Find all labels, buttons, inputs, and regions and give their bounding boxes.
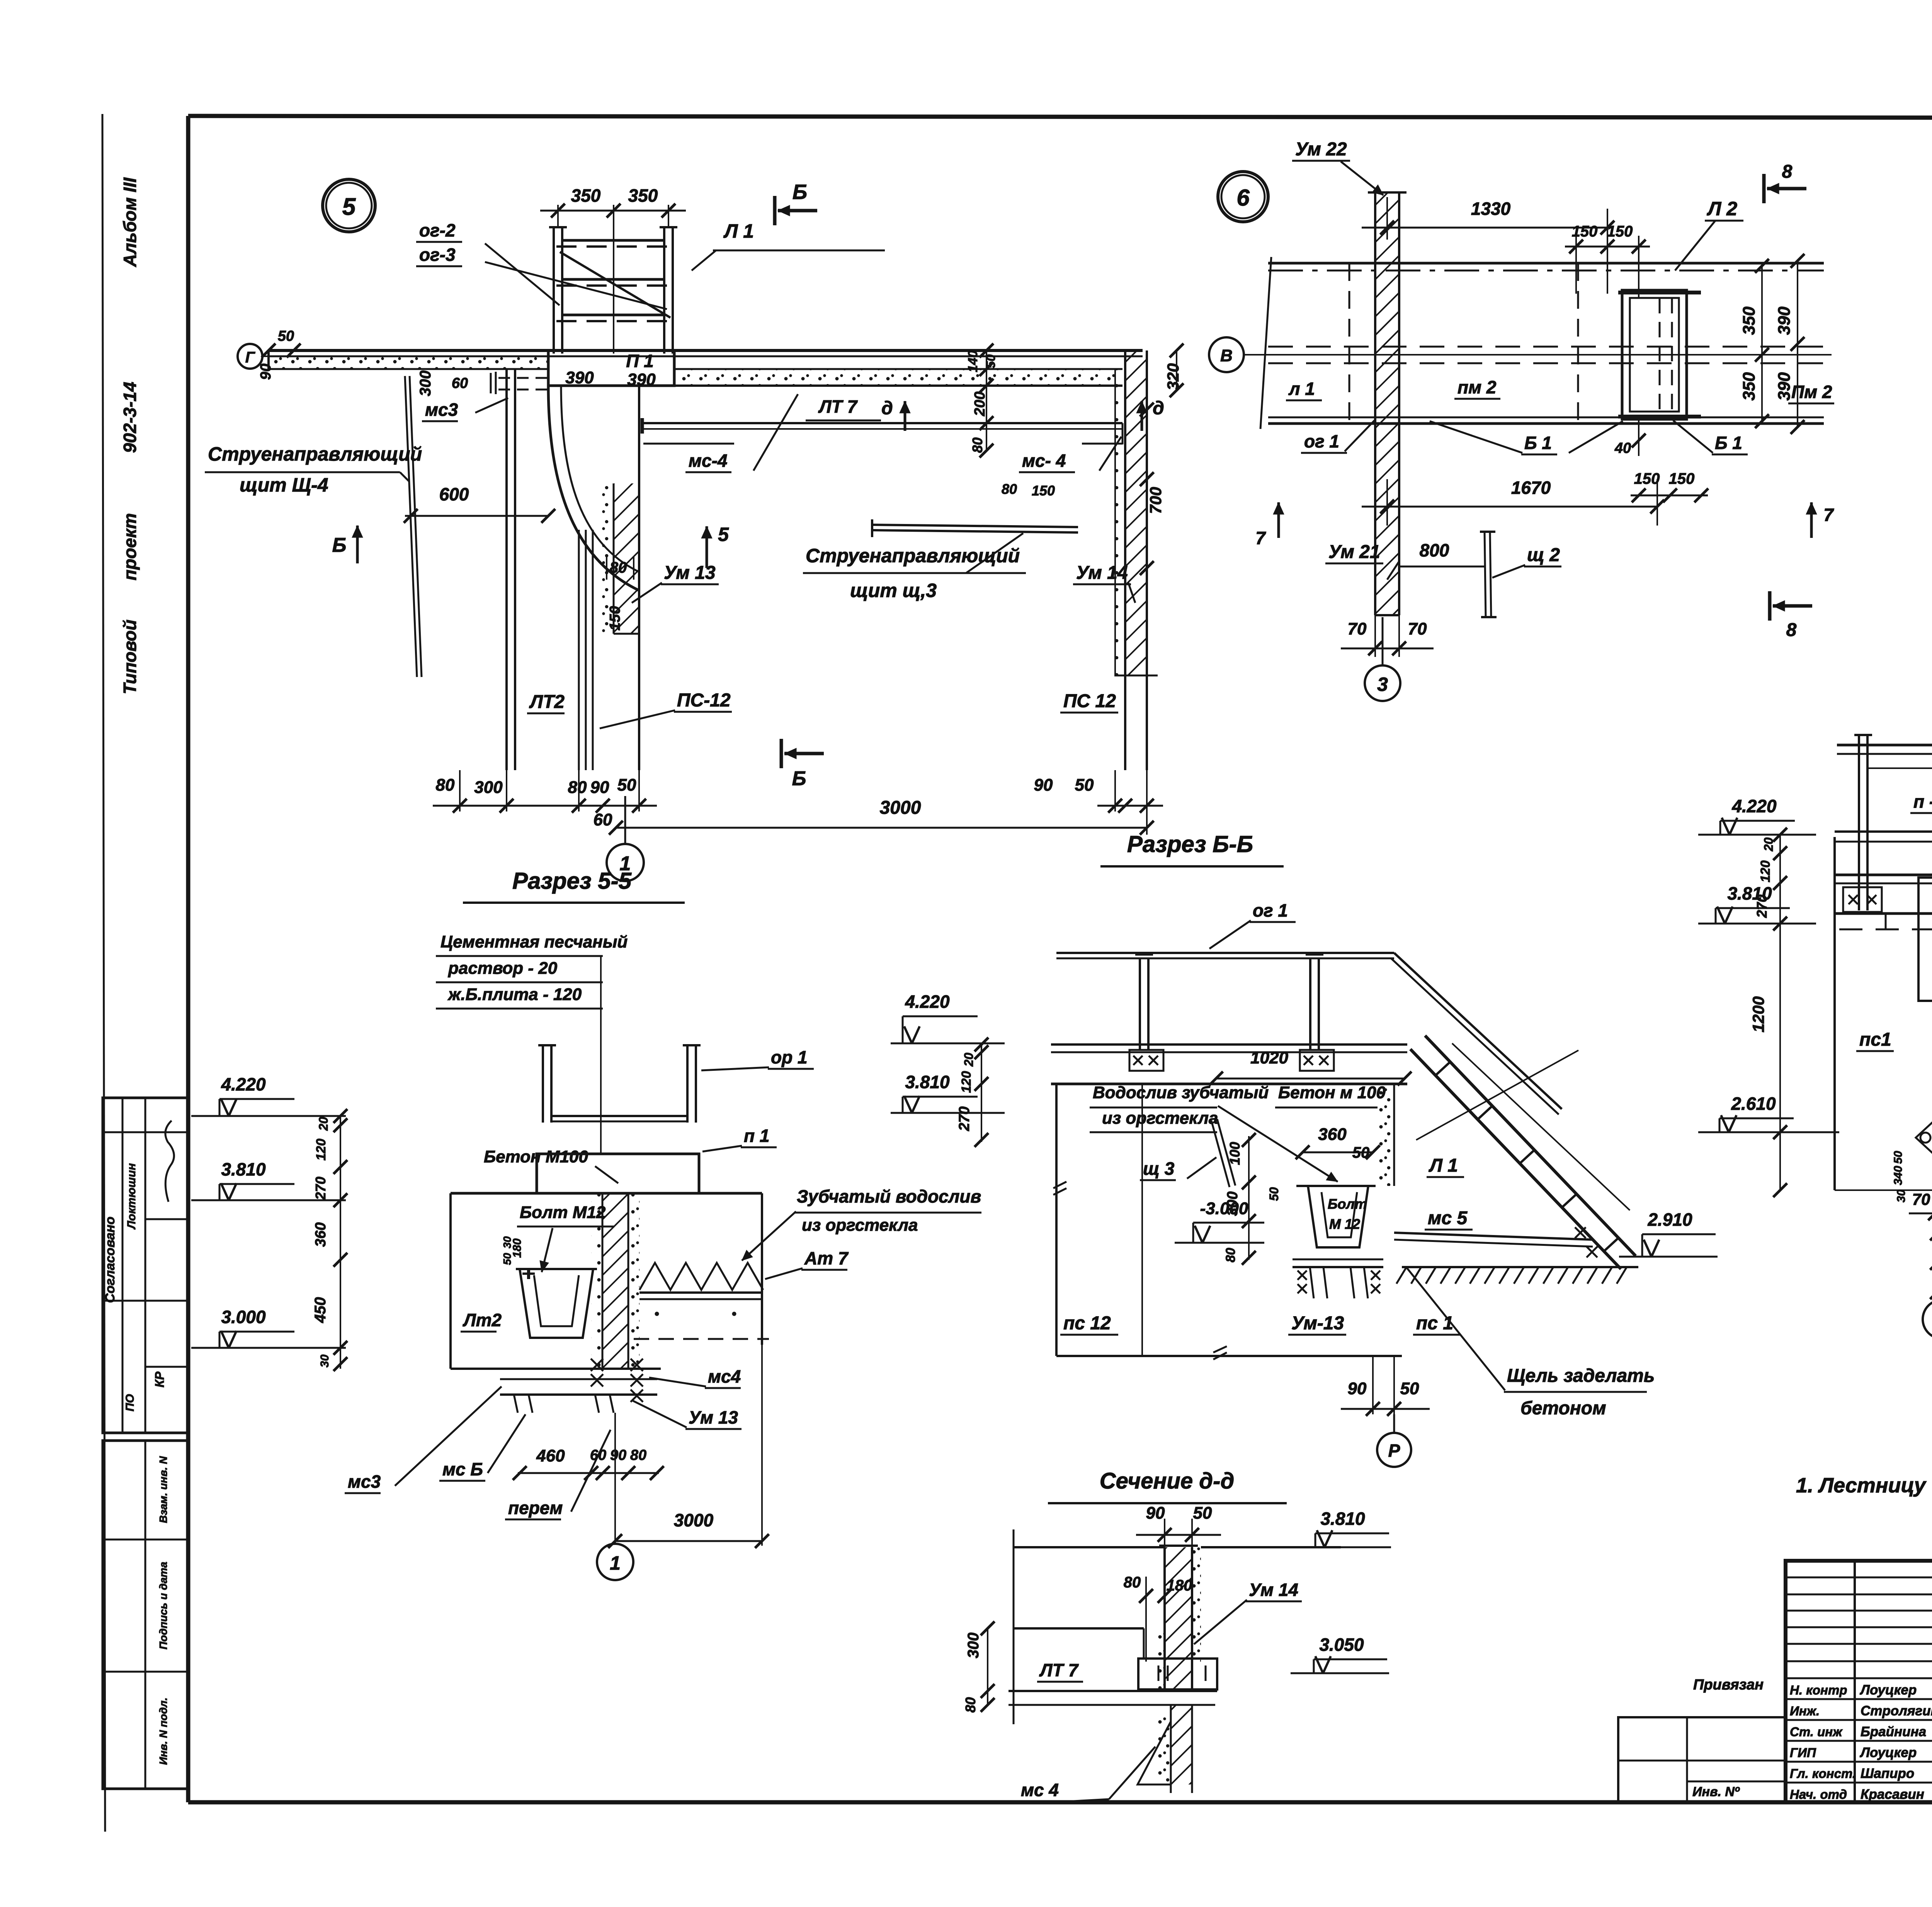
- svg-text:Гл. конст.: Гл. конст.: [1790, 1766, 1856, 1781]
- detail 5: ladder Л1 left post: [553, 227, 555, 354]
- ground line + hatch: [1402, 1266, 1638, 1268]
- svg-text:из оргстекла: из оргстекла: [1102, 1109, 1218, 1128]
- slab bottom line: [1051, 1083, 1407, 1085]
- axis bubble 1: [607, 844, 644, 881]
- svg-text:1. Лестницу: 1. Лестницу: [1796, 1474, 1927, 1497]
- svg-text:270: 270: [313, 1177, 328, 1200]
- wall Ум14 hatched (right): [1125, 350, 1147, 675]
- trough section (razrez 6-6): [1296, 1185, 1376, 1187]
- base plates under trough: [500, 1378, 657, 1380]
- svg-text:50: 50: [1400, 1379, 1419, 1398]
- central hatched wall: [602, 1193, 628, 1369]
- svg-text:350: 350: [1740, 306, 1759, 335]
- handrail horizontal: [1056, 952, 1394, 954]
- svg-text:4.220: 4.220: [221, 1074, 266, 1094]
- svg-text:Ум-13: Ум-13: [1291, 1313, 1344, 1334]
- trough ЛТ2 section: [516, 1268, 597, 1270]
- svg-text:3.810: 3.810: [221, 1159, 266, 1179]
- collar block: [1138, 1659, 1217, 1689]
- п-1 beam lines: [1835, 830, 1932, 833]
- svg-text:120: 120: [314, 1139, 328, 1161]
- funnel ог-1 curved outline: [548, 386, 639, 590]
- band left break mark: [1260, 257, 1271, 429]
- svg-text:2.910: 2.910: [1647, 1210, 1692, 1230]
- section mark Б (top): [773, 196, 777, 225]
- stipple column at slab end: [1376, 1084, 1394, 1186]
- svg-text:пм 2: пм 2: [1458, 377, 1497, 397]
- title block outer box: [1786, 1561, 1932, 1802]
- slab пм2 top lines: [1835, 874, 1932, 876]
- svg-text:50: 50: [278, 328, 294, 344]
- svg-text:Зубчатый водослив: Зубчатый водослив: [797, 1186, 981, 1206]
- anchor boxes in slab: [1843, 887, 1882, 912]
- svg-text:20: 20: [316, 1117, 330, 1131]
- svg-text:проект: проект: [120, 513, 140, 580]
- leader lines ог-2/ог-3: [485, 243, 560, 305]
- svg-text:л 1: л 1: [1288, 379, 1315, 399]
- svg-text:Стролягин: Стролягин: [1861, 1703, 1932, 1718]
- connection frame Б1 (inner rect): [1630, 298, 1679, 412]
- svg-text:340: 340: [1892, 1166, 1905, 1185]
- svg-text:щит щ,3: щит щ,3: [850, 580, 937, 601]
- svg-text:Лоуцкер: Лоуцкер: [1859, 1682, 1917, 1698]
- svg-text:350: 350: [628, 185, 658, 206]
- axis line В: [1244, 354, 1832, 356]
- svg-text:80: 80: [436, 776, 455, 794]
- thin rail line ог-1: [1866, 767, 1932, 769]
- svg-text:д: д: [1153, 398, 1164, 418]
- sheet edge line (left paper edge): [102, 114, 105, 1832]
- drawing frame border: [188, 116, 1932, 118]
- axis bubble 3: [1365, 665, 1400, 701]
- svg-text:80: 80: [568, 778, 587, 797]
- svg-text:мс Б: мс Б: [442, 1459, 483, 1479]
- tilted weir plate: [1211, 1121, 1230, 1187]
- svg-text:3.050: 3.050: [1319, 1635, 1364, 1655]
- svg-text:1670: 1670: [1511, 478, 1551, 498]
- section mark Б (bottom): [780, 739, 783, 768]
- stair cross brace: [1416, 1050, 1578, 1140]
- svg-text:300: 300: [417, 371, 434, 396]
- svg-text:3: 3: [1377, 674, 1388, 695]
- slab top lines: [1051, 1043, 1407, 1046]
- Взам.инв / Подпись и дата / Инв.№ подл. table: [103, 1441, 188, 1789]
- svg-text:270: 270: [1754, 895, 1770, 918]
- axis Г bubble: [238, 344, 262, 369]
- svg-text:180: 180: [511, 1238, 524, 1258]
- main section body: [1833, 837, 1836, 1190]
- svg-text:М 12: М 12: [1329, 1216, 1360, 1232]
- svg-text:Щель заделать: Щель заделать: [1507, 1366, 1655, 1386]
- svg-text:ж.Б.плита - 120: ж.Б.плита - 120: [447, 985, 582, 1004]
- svg-text:60: 60: [452, 375, 468, 391]
- svg-text:120: 120: [1758, 861, 1773, 883]
- dashed verticals crossing band: [1349, 263, 1350, 424]
- svg-text:700: 700: [1146, 487, 1165, 514]
- svg-text:ПО: ПО: [124, 1394, 136, 1412]
- svg-text:Лт2: Лт2: [463, 1310, 502, 1330]
- svg-text:60: 60: [594, 810, 612, 829]
- node 6 bubble: [1218, 172, 1268, 222]
- svg-text:Взам. инв. N: Взам. инв. N: [157, 1456, 169, 1523]
- beam Б1 rect: [1918, 878, 1932, 1001]
- wall Ум14 hatched strip: [1165, 1547, 1192, 1691]
- svg-text:80: 80: [1002, 481, 1017, 497]
- svg-text:Ум 21: Ум 21: [1328, 542, 1380, 562]
- svg-text:Бетон м 100: Бетон м 100: [1278, 1083, 1386, 1102]
- svg-text:3.810: 3.810: [1320, 1509, 1365, 1529]
- svg-text:ЛТ 7: ЛТ 7: [1039, 1660, 1079, 1680]
- svg-text:Инв. Nº: Инв. Nº: [1692, 1785, 1740, 1799]
- rail posts ор1: [542, 1045, 544, 1123]
- svg-text:Инв. N подл.: Инв. N подл.: [157, 1698, 169, 1765]
- svg-text:Разрез 5-5: Разрез 5-5: [512, 868, 632, 894]
- svg-text:В: В: [1220, 346, 1233, 365]
- svg-text:50: 50: [1352, 1144, 1370, 1161]
- svg-text:450: 450: [312, 1297, 329, 1324]
- body outline: [451, 1192, 762, 1195]
- svg-text:Красавин: Красавин: [1861, 1787, 1924, 1802]
- svg-text:ЛТ2: ЛТ2: [529, 692, 565, 712]
- body outline: [1055, 1084, 1058, 1356]
- beam band bottom edge: [1268, 417, 1824, 418]
- svg-text:мс 4: мс 4: [1021, 1780, 1059, 1800]
- svg-text:350: 350: [571, 185, 601, 206]
- svg-text:Инж.: Инж.: [1790, 1704, 1820, 1718]
- svg-text:150: 150: [1607, 223, 1633, 240]
- svg-text:8: 8: [1786, 620, 1797, 640]
- svg-text:150: 150: [607, 606, 623, 630]
- svg-text:80: 80: [963, 1697, 978, 1713]
- svg-text:перем: перем: [508, 1498, 563, 1518]
- svg-text:Л 1: Л 1: [723, 220, 754, 242]
- svg-text:7: 7: [1823, 505, 1834, 525]
- stipple bands: [1155, 1630, 1165, 1691]
- svg-text:390: 390: [627, 370, 656, 389]
- svg-text:п - 1: п - 1: [1913, 791, 1932, 811]
- stipple left of Ум13: [601, 483, 614, 634]
- svg-text:2.610: 2.610: [1731, 1094, 1776, 1114]
- svg-text:30: 30: [318, 1354, 331, 1368]
- trough base + feet: [1293, 1259, 1383, 1261]
- anchor boxes with welds: [1129, 1050, 1163, 1071]
- svg-text:П 1: П 1: [626, 351, 653, 371]
- section mark 8 (top): [1762, 174, 1766, 203]
- svg-text:300: 300: [965, 1633, 982, 1659]
- wall Ум13 hatched strip: [614, 483, 639, 634]
- svg-text:Болт: Болт: [1328, 1196, 1367, 1212]
- slab пс1 top lines: [269, 349, 1143, 352]
- svg-text:80: 80: [630, 1447, 646, 1463]
- svg-text:40: 40: [1614, 440, 1631, 456]
- svg-text:70: 70: [1348, 619, 1367, 638]
- beam band top edge: [1268, 262, 1824, 265]
- baffle щит Щ-4 (thin plate): [405, 376, 417, 677]
- detail 5: ladder Л1 right post: [663, 227, 665, 354]
- svg-text:200: 200: [972, 391, 988, 416]
- svg-text:1330: 1330: [1471, 199, 1511, 219]
- svg-text:ор 1: ор 1: [771, 1047, 808, 1067]
- svg-text:390: 390: [565, 368, 594, 387]
- svg-text:150: 150: [1032, 483, 1055, 498]
- svg-text:50: 50: [1075, 776, 1094, 794]
- svg-text:мс- 4: мс- 4: [1022, 451, 1066, 471]
- svg-text:Болт М12: Болт М12: [520, 1203, 606, 1222]
- channel ЛТ7 lines under slab: [643, 422, 1122, 424]
- svg-text:300: 300: [1225, 1191, 1241, 1216]
- svg-text:150: 150: [1669, 470, 1695, 487]
- strut мс5: [1394, 1233, 1593, 1240]
- svg-text:390: 390: [1775, 372, 1794, 401]
- weir tray: [639, 1291, 762, 1294]
- svg-text:Разрез Б-Б: Разрез Б-Б: [1127, 831, 1253, 857]
- rail tie lines: [551, 1115, 687, 1117]
- wall ЛТ2 verticals: [505, 369, 508, 770]
- dashed pair inside frame: [1659, 298, 1661, 412]
- svg-text:мс3: мс3: [348, 1472, 381, 1492]
- stipple bands beside wall: [591, 1193, 602, 1369]
- svg-text:щ 3: щ 3: [1143, 1158, 1175, 1179]
- svg-text:Шапиро: Шапиро: [1861, 1766, 1914, 1781]
- svg-text:902-3-14: 902-3-14: [120, 382, 140, 453]
- svg-text:д: д: [881, 398, 893, 418]
- svg-text:90: 90: [590, 778, 609, 797]
- svg-text:360: 360: [1318, 1125, 1347, 1144]
- handrail slope to stair: [1394, 953, 1562, 1109]
- svg-text:Локтюшин: Локтюшин: [125, 1163, 138, 1230]
- svg-text:Струенаправляющий: Струенаправляющий: [806, 545, 1020, 566]
- section arrows 7 (up): [1277, 502, 1280, 538]
- svg-text:ог-2: ог-2: [419, 220, 456, 240]
- hidden dashed line in body: [1839, 929, 1932, 931]
- leader from note to slab: [600, 956, 602, 1154]
- svg-text:мс3: мс3: [425, 400, 458, 420]
- svg-text:раствор - 20: раствор - 20: [448, 959, 558, 978]
- support block П1: [548, 350, 674, 386]
- svg-text:5: 5: [342, 194, 356, 220]
- beam band dashed mid lines: [1268, 346, 1824, 348]
- svg-text:пс1: пс1: [1859, 1029, 1891, 1050]
- svg-text:Сечение д-д: Сечение д-д: [1100, 1468, 1235, 1494]
- rail posts (3): [1858, 735, 1860, 910]
- svg-text:Б: Б: [332, 534, 347, 556]
- middle slab line: [1014, 1627, 1144, 1630]
- svg-text:пс 12: пс 12: [1063, 1313, 1111, 1334]
- left vertical dim line + rotated dims: [340, 1116, 341, 1369]
- svg-text:ог-3: ог-3: [419, 245, 456, 265]
- node 5 bubble: [323, 179, 375, 232]
- svg-text:600: 600: [439, 484, 469, 504]
- svg-text:бетоном: бетоном: [1520, 1398, 1606, 1419]
- svg-text:Л 2: Л 2: [1707, 198, 1737, 219]
- slab bottom: [1835, 912, 1932, 915]
- slab concrete stipple (left part): [270, 357, 548, 368]
- section arrow Б (left, up): [356, 526, 359, 563]
- svg-text:60: 60: [590, 1447, 606, 1463]
- svg-text:360: 360: [313, 1222, 329, 1247]
- svg-text:120: 120: [959, 1071, 974, 1093]
- svg-text:460: 460: [536, 1446, 565, 1465]
- svg-text:Струенаправляющий: Струенаправляющий: [208, 443, 422, 465]
- break marks: [1053, 1182, 1066, 1188]
- svg-text:Ум 13: Ум 13: [689, 1407, 738, 1427]
- svg-text:Подпись и дата: Подпись и дата: [157, 1562, 169, 1650]
- svg-text:Л 1: Л 1: [1429, 1155, 1458, 1176]
- axis bubble В: [1209, 337, 1244, 372]
- section arrow 5 (up): [706, 526, 708, 568]
- svg-text:ГИП: ГИП: [1790, 1745, 1816, 1760]
- svg-text:140: 140: [966, 350, 980, 373]
- svg-text:КР: КР: [153, 1371, 167, 1388]
- svg-text:мс-4: мс-4: [689, 451, 728, 471]
- svg-text:п 1: п 1: [744, 1126, 769, 1146]
- svg-text:ог 1: ог 1: [1304, 431, 1339, 451]
- svg-text:Р: Р: [1388, 1441, 1400, 1461]
- svg-text:Ат 7: Ат 7: [804, 1248, 849, 1268]
- section mark 8 (bottom): [1768, 591, 1772, 621]
- panel щ2 (vertical bar): [1485, 532, 1486, 617]
- svg-text:70: 70: [1912, 1190, 1930, 1208]
- svg-text:мс 5: мс 5: [1428, 1208, 1468, 1228]
- svg-text:Б: Б: [793, 180, 807, 204]
- arrows д (up): [904, 401, 906, 431]
- svg-text:300: 300: [474, 778, 503, 797]
- svg-text:ПС 12: ПС 12: [1063, 691, 1116, 711]
- svg-text:80: 80: [1124, 1574, 1141, 1591]
- support block: [537, 1154, 699, 1193]
- svg-text:Брайнина: Брайнина: [1861, 1724, 1926, 1739]
- svg-text:Типовой: Типовой: [120, 619, 140, 694]
- svg-text:20: 20: [962, 1053, 976, 1067]
- svg-text:ог 1: ог 1: [1253, 900, 1288, 920]
- names rows: [1786, 1698, 1932, 1700]
- svg-text:Ст. инж: Ст. инж: [1790, 1725, 1843, 1739]
- svg-text:390: 390: [1775, 306, 1794, 335]
- svg-text:1200: 1200: [1749, 996, 1767, 1032]
- handrail ог-1 top: [1837, 744, 1932, 747]
- svg-text:Нач. отд: Нач. отд: [1790, 1787, 1847, 1802]
- sawtooth weir teeth: [639, 1263, 763, 1290]
- narrow revision rows (left): [1786, 1577, 1932, 1579]
- svg-text:3000: 3000: [880, 798, 921, 818]
- top slab line: [1014, 1546, 1165, 1548]
- svg-text:3.000: 3.000: [221, 1307, 266, 1327]
- svg-text:30: 30: [1895, 1189, 1908, 1203]
- svg-text:150: 150: [1634, 470, 1660, 487]
- svg-text:5: 5: [718, 524, 729, 545]
- wall ПС-12 inner verticals: [578, 530, 580, 770]
- svg-text:Б 1: Б 1: [1524, 433, 1552, 453]
- axis bubble Р: [1377, 1433, 1411, 1467]
- svg-text:80: 80: [969, 437, 985, 453]
- svg-text:100: 100: [1227, 1142, 1243, 1165]
- svg-text:800: 800: [1420, 540, 1449, 560]
- svg-text:270: 270: [956, 1106, 973, 1131]
- svg-text:4.220: 4.220: [905, 992, 950, 1012]
- svg-text:1020: 1020: [1250, 1048, 1288, 1067]
- bottom lines: [1009, 1690, 1217, 1692]
- svg-text:ПС-12: ПС-12: [677, 690, 731, 711]
- svg-text:3000: 3000: [674, 1510, 714, 1530]
- svg-text:Водослив зубчатый: Водослив зубчатый: [1093, 1083, 1269, 1102]
- wall strip (plan) hatched: [1375, 192, 1399, 615]
- wall right edge of funnel: [638, 386, 640, 770]
- svg-text:50: 50: [1267, 1187, 1281, 1201]
- svg-text:щ 2: щ 2: [1527, 545, 1560, 565]
- svg-text:Б: Б: [792, 767, 806, 790]
- svg-text:ЛТ 7: ЛТ 7: [818, 396, 858, 417]
- svg-text:мс4: мс4: [708, 1366, 741, 1386]
- мс3 plate (dashed): [498, 377, 549, 379]
- svg-text:90: 90: [1348, 1379, 1367, 1398]
- baffle щит щ3 plate (horizontal): [872, 525, 1078, 527]
- detail 5: ladder rungs (dashed): [562, 239, 664, 242]
- svg-text:из оргстекла: из оргстекла: [802, 1216, 918, 1235]
- svg-text:50: 50: [1892, 1151, 1905, 1164]
- slab bottom line right part + stipple: [674, 370, 1122, 385]
- feet: [514, 1395, 518, 1413]
- svg-text:90: 90: [610, 1447, 626, 1463]
- svg-text:80: 80: [610, 559, 627, 576]
- svg-text:3.810: 3.810: [905, 1072, 950, 1092]
- svg-text:Цементная песчаный: Цементная песчаный: [440, 932, 628, 951]
- svg-text:щит Щ-4: щит Щ-4: [240, 474, 328, 496]
- svg-text:Г: Г: [245, 349, 256, 366]
- stair Л1 stringers: [1410, 1049, 1621, 1269]
- svg-text:90: 90: [1146, 1504, 1165, 1523]
- svg-text:Ум 22: Ум 22: [1295, 139, 1347, 160]
- rail posts: [1139, 958, 1141, 1050]
- svg-text:4.220: 4.220: [1731, 796, 1777, 816]
- lower hatched strip + foot: [1171, 1705, 1192, 1785]
- bolt mark: [527, 1269, 530, 1279]
- appendix table (left of names): [1618, 1717, 1786, 1802]
- svg-text:350: 350: [1740, 372, 1759, 401]
- svg-text:7: 7: [1255, 528, 1266, 548]
- svg-text:50: 50: [617, 776, 636, 794]
- bearing plates (thick short lines): [1618, 291, 1701, 294]
- svg-text:Ум 14: Ум 14: [1249, 1580, 1298, 1600]
- axis bubble 1: [597, 1544, 633, 1580]
- svg-text:Лоуцкер: Лоуцкер: [1859, 1745, 1917, 1760]
- svg-text:1: 1: [610, 1552, 621, 1574]
- svg-text:80: 80: [1223, 1248, 1238, 1262]
- svg-text:90: 90: [258, 364, 274, 380]
- svg-text:50: 50: [1193, 1504, 1212, 1523]
- detail 5: diagonal brace ог-3: [560, 252, 670, 318]
- svg-text:Согласовано: Согласовано: [103, 1216, 117, 1303]
- svg-text:70: 70: [1408, 619, 1427, 638]
- title block grid verticals: [1854, 1561, 1856, 1802]
- axis bubble 3: [1923, 1300, 1932, 1339]
- Согласовано table: [103, 1098, 188, 1433]
- svg-text:Н. контр: Н. контр: [1790, 1683, 1847, 1697]
- svg-text:пс 1: пс 1: [1416, 1313, 1453, 1334]
- slab recess below: [1885, 914, 1887, 929]
- svg-text:6: 6: [1236, 185, 1250, 211]
- stair rungs: [1435, 1062, 1450, 1075]
- svg-text:90: 90: [1034, 776, 1053, 794]
- left boundary line: [1013, 1529, 1015, 1724]
- connection frame Б1 (outer rect): [1622, 290, 1687, 419]
- svg-text:Пм 2: Пм 2: [1791, 382, 1832, 402]
- svg-text:8: 8: [1782, 162, 1793, 182]
- svg-text:Привязан: Привязан: [1693, 1677, 1764, 1693]
- svg-text:Б 1: Б 1: [1715, 433, 1742, 453]
- weld X marks: [591, 1359, 603, 1371]
- svg-text:Альбом III: Альбом III: [120, 177, 140, 267]
